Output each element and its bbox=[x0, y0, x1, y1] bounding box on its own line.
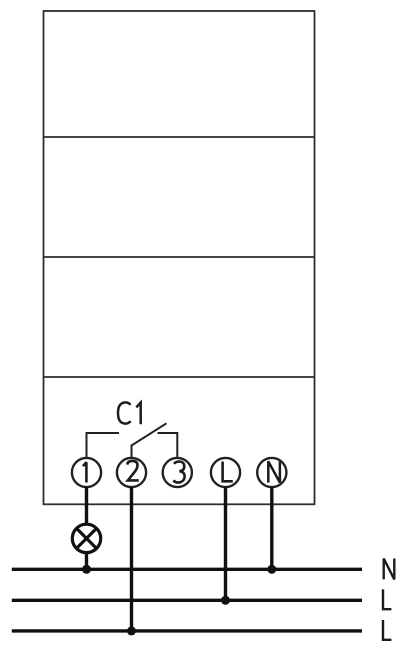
terminal L circle bbox=[211, 458, 240, 487]
lamp E1 bbox=[72, 524, 100, 552]
contact C1 fixed contact from terminal 3 bbox=[158, 433, 178, 457]
enclosure divider 2 bbox=[44, 256, 315, 258]
terminal N label bbox=[268, 461, 280, 482]
terminal 1 label bbox=[83, 462, 87, 482]
contact C1 label bbox=[118, 402, 141, 424]
terminal 3 label bbox=[173, 461, 184, 482]
terminal L label bbox=[223, 462, 233, 482]
wire terminal 2 to bottom L bus bbox=[130, 487, 133, 631]
wire terminal N to N bus bbox=[270, 487, 273, 569]
net label N bbox=[384, 559, 395, 580]
contact C1 common stub from terminal 2 bbox=[131, 445, 133, 458]
terminal 2 circle bbox=[117, 458, 146, 487]
terminal 1 circle bbox=[72, 458, 101, 487]
L bus line (bottom) bbox=[12, 629, 362, 632]
terminal N circle bbox=[257, 458, 286, 487]
junction terminal 2 wire / bottom L bus bbox=[127, 626, 136, 635]
net label L (middle) bbox=[383, 589, 391, 609]
L bus line (middle) bbox=[12, 599, 362, 602]
net label L (bottom) bbox=[383, 620, 391, 640]
N bus line bbox=[12, 568, 362, 571]
contact C1 fixed contact from terminal 1 bbox=[87, 433, 120, 457]
wire terminal L to middle L bus bbox=[224, 487, 227, 600]
terminal 3 circle bbox=[163, 458, 192, 487]
junction lamp / N bus bbox=[82, 565, 91, 574]
wire lamp to N bus bbox=[85, 553, 88, 570]
device enclosure outline bbox=[44, 11, 315, 504]
enclosure divider 1 bbox=[44, 136, 315, 138]
junction terminal L wire / middle L bus bbox=[221, 596, 230, 605]
wire terminal 1 to lamp bbox=[85, 487, 88, 524]
enclosure divider 3 bbox=[44, 376, 315, 378]
terminal 2 label bbox=[127, 461, 139, 481]
contact C1 moving blade bbox=[132, 423, 167, 445]
junction terminal N wire / N bus bbox=[267, 565, 276, 574]
